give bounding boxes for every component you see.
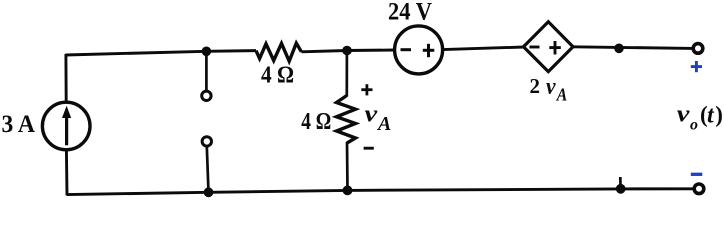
label: + polarity of vo (blue): [691, 61, 702, 72]
node D: bottom port node (filled dot): [204, 187, 214, 197]
wire: stub from terminal b down to node D: [207, 146, 209, 192]
svg-text:3 A: 3 A: [2, 111, 36, 138]
wire: R2 to node E: [346, 142, 349, 191]
node F (filled dot, bottom right) with stub: [616, 177, 626, 194]
current source I1 3 A (circle with up arrow): [42, 102, 90, 150]
label: - polarity of vA: [364, 147, 374, 150]
wire: U1 to node C to output terminal: [573, 47, 693, 49]
node C (filled dot): [614, 44, 624, 54]
resistor R2 4 ohm vertical (zigzag): [337, 96, 356, 144]
svg-text:v: v: [546, 74, 556, 100]
svg-text:A: A: [376, 113, 391, 135]
svg-text:2: 2: [530, 74, 541, 98]
svg-text:v: v: [365, 102, 378, 128]
wire: top-left horizontal segment (left corner to R1): [66, 51, 257, 55]
label: 2 vA: [530, 74, 568, 105]
svg-text:o: o: [690, 116, 698, 133]
voltage source V1 24 V (circle): [395, 26, 443, 74]
svg-text:24 V: 24 V: [388, 0, 432, 25]
terminal b (open circle): [202, 137, 211, 146]
wire: node B down to R2: [345, 51, 348, 97]
node A: top port node (filled dot): [202, 47, 212, 57]
resistor R1 4 ohm horizontal (zigzag): [256, 43, 301, 61]
wire: stub from node A down to port terminal a: [205, 51, 208, 91]
svg-text:4 Ω: 4 Ω: [301, 109, 331, 135]
label: vA (across R2): [365, 102, 392, 136]
terminal: output - (open circle, bottom right): [694, 184, 704, 194]
dependent source U1 2vA (diamond): [524, 22, 574, 72]
wire: bottom horizontal: [67, 189, 694, 195]
wire: R1 to node B to 24V source: [301, 50, 394, 52]
svg-text:4 Ω: 4 Ω: [261, 62, 294, 88]
wire: left vertical upper segment: [64, 54, 67, 103]
label: - inside U1: [530, 46, 540, 49]
wire: V1 to dependent source U1: [443, 47, 524, 50]
label: - polarity of vo (blue): [691, 173, 703, 176]
svg-text:t: t: [707, 103, 715, 129]
label: + inside V1: [423, 44, 435, 57]
node B (filled dot): [342, 46, 352, 56]
label: vo(t) (blue): [677, 101, 723, 133]
label: + polarity of vA: [361, 84, 372, 95]
label: - inside V1: [401, 48, 412, 51]
label: + inside U1: [549, 41, 561, 55]
svg-text:v: v: [677, 101, 690, 127]
node E (filled dot, bottom middle): [343, 186, 353, 196]
terminal a (open circle): [202, 91, 211, 100]
terminal: output + (open circle, top right): [693, 44, 703, 54]
svg-text:): ): [715, 102, 723, 127]
svg-text:A: A: [556, 84, 567, 104]
wire: left vertical lower segment: [65, 149, 68, 196]
